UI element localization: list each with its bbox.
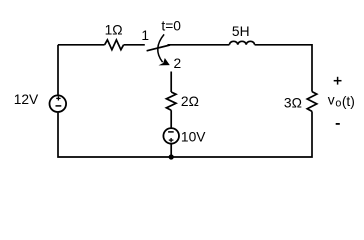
wire 10V to bottom node bbox=[170, 144, 172, 157]
resistor 3ohm bbox=[307, 92, 317, 112]
wire top-left segment bbox=[58, 44, 105, 46]
switch t=0 motion arc bbox=[158, 34, 164, 62]
wire 3ohm to bottom-right corner bbox=[171, 111, 312, 157]
voltage source 12V circle bbox=[50, 95, 67, 112]
svg-text:3Ω: 3Ω bbox=[284, 96, 302, 111]
switch blade bbox=[147, 45, 170, 51]
svg-text:1: 1 bbox=[141, 28, 149, 43]
label switch position 1 bbox=[141, 28, 149, 43]
svg-text:1Ω: 1Ω bbox=[105, 23, 123, 38]
junction dot bottom node bbox=[169, 154, 174, 159]
svg-text:12V: 12V bbox=[14, 92, 39, 107]
label 12V value bbox=[14, 92, 39, 107]
resistor 1ohm bbox=[105, 40, 124, 50]
svg-text:t=0: t=0 bbox=[161, 19, 181, 34]
wire switch contact 2 down bbox=[170, 72, 172, 93]
10V plus mark bbox=[169, 138, 174, 142]
label 5H value bbox=[232, 24, 250, 39]
12V minus mark bbox=[56, 105, 62, 107]
output minus sign bbox=[336, 123, 340, 125]
wire switch to inductor bbox=[168, 44, 230, 46]
label 10V value bbox=[181, 129, 206, 144]
label switch position 2 bbox=[174, 56, 182, 71]
wire inductor to top-right corner and down bbox=[255, 45, 312, 92]
wire 2ohm to 10V source bbox=[170, 110, 172, 128]
svg-text:10V: 10V bbox=[181, 129, 206, 144]
label 1ohm value bbox=[105, 23, 123, 38]
inductor 5H bbox=[229, 41, 254, 45]
svg-text:2Ω: 2Ω bbox=[181, 94, 199, 109]
svg-text:2: 2 bbox=[174, 56, 182, 71]
label 3ohm value bbox=[284, 96, 302, 111]
label t=0 bbox=[161, 19, 181, 34]
label vo(t) bbox=[328, 92, 355, 109]
voltage source 10V circle bbox=[163, 128, 179, 144]
svg-text:vo(t): vo(t) bbox=[328, 92, 355, 109]
svg-text:5H: 5H bbox=[232, 24, 250, 39]
wire bottom-left bbox=[58, 113, 171, 157]
wire resistor to switch contact 1 bbox=[124, 44, 145, 46]
12V plus mark bbox=[56, 96, 60, 100]
switch arrow head bbox=[159, 58, 170, 65]
10V minus mark bbox=[168, 131, 174, 133]
wire 12V to top-left corner bbox=[57, 45, 59, 96]
label 2ohm value bbox=[181, 94, 199, 109]
resistor 2ohm bbox=[166, 92, 176, 110]
output plus sign bbox=[334, 77, 342, 85]
